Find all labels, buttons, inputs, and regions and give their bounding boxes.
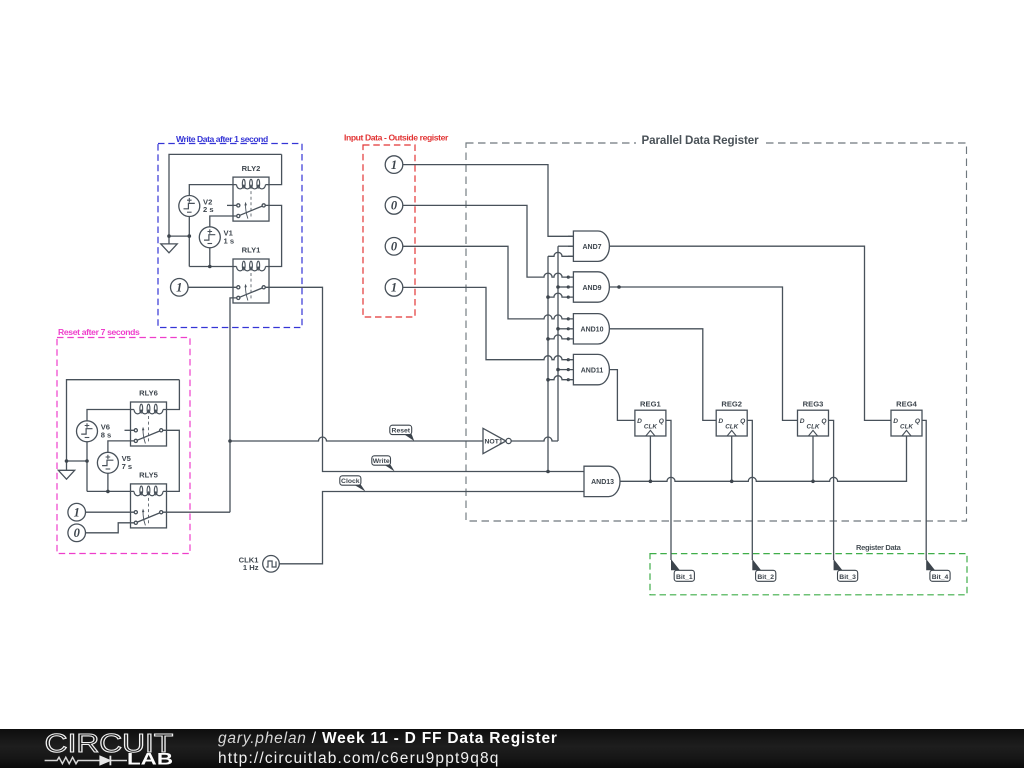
svg-text:AND7: AND7 <box>582 244 601 251</box>
D flip-flop REG3 <box>798 410 829 436</box>
wire data bit 2 to AND10 top input (hops over buses) <box>403 246 568 319</box>
svg-text:Q: Q <box>740 418 746 425</box>
wire V1 bottom <box>209 248 211 267</box>
wire RLY6 coil right to top rail <box>167 380 180 410</box>
digital source 1 (data bit 1) <box>385 279 403 297</box>
junction dots on buses <box>546 285 560 381</box>
svg-text:Q: Q <box>915 418 921 425</box>
wire RLY6 coil left to V6 top <box>87 410 131 421</box>
wire REG3 clock stub <box>812 436 814 481</box>
svg-text:REG3: REG3 <box>803 400 824 409</box>
wire RLY2 common stub (unconnected) <box>227 204 233 206</box>
wire RLY2 switch output down to RLY1 coil right <box>269 205 282 266</box>
svg-text:RLY6: RLY6 <box>139 389 158 398</box>
svg-text:D: D <box>800 418 805 425</box>
wire inverted-reset bus elbow into AND7 middle input <box>558 245 573 247</box>
svg-text:7 s: 7 s <box>122 462 133 471</box>
pin dots AND11 inputs <box>567 358 570 381</box>
wire V1 top to RLY2 lower switch pin <box>210 216 233 227</box>
wire NOT1 output to inverted-reset bus (hop over Write bus) <box>511 437 558 441</box>
svg-text:D: D <box>893 418 898 425</box>
input stubs AND10 <box>568 319 573 339</box>
footer site title <box>218 730 558 748</box>
svg-text:Bit_3: Bit_3 <box>839 574 856 581</box>
wire REG1 Q output down to Bit_1 <box>666 420 671 560</box>
svg-text:Write Data after 1 second: Write Data after 1 second <box>176 134 268 144</box>
flag label Bit_1 <box>671 559 694 581</box>
digital source 0 (data bit 3) <box>385 197 403 215</box>
wire REG3 Q output down to Bit_3 <box>829 420 834 560</box>
svg-text:D: D <box>637 418 642 425</box>
svg-text:1 Hz: 1 Hz <box>243 563 259 572</box>
label V1 1 s <box>224 229 235 246</box>
svg-text:Q: Q <box>659 418 665 425</box>
CircuitLab logo <box>40 729 180 768</box>
wire RLY5 coil left rail <box>87 490 131 492</box>
flag label Clock <box>340 476 366 492</box>
svg-text:0: 0 <box>74 526 81 540</box>
junction dot ground rail magenta <box>65 459 69 463</box>
and-gate AND7 <box>573 231 609 261</box>
junction dot REG3 clock <box>811 480 815 484</box>
wire AND10 bottom input tap (hop over x558) <box>548 335 568 339</box>
wire V6 bottom down to RLY5 coil rail <box>86 442 88 492</box>
flag label Bit_3 <box>834 559 858 581</box>
input stubs AND7 <box>568 236 573 256</box>
junction dot V5 bottom on coil rail <box>106 490 110 494</box>
wire AND9 bottom input tap (hop over x558) <box>548 293 568 297</box>
junction dot ground rail left <box>167 234 171 238</box>
wire Write bus elbow into AND7 bottom input (hop over x558) <box>548 252 573 256</box>
wire ground stub magenta <box>66 461 68 470</box>
and-gate AND13 (clock gating) <box>584 466 620 496</box>
svg-text:1: 1 <box>391 281 397 295</box>
svg-text:REG2: REG2 <box>721 400 742 409</box>
svg-text:Bit_4: Bit_4 <box>932 574 949 581</box>
label V5 7 s <box>122 454 133 471</box>
svg-text:Write: Write <box>373 458 390 465</box>
voltage source V1 <box>199 227 220 248</box>
relay RLY5 <box>131 484 167 528</box>
digital source 1 (write data input) <box>171 279 189 297</box>
wire V5 bottom <box>107 473 109 491</box>
flag label Write <box>372 456 395 472</box>
svg-text:Reset after 7 seconds: Reset after 7 seconds <box>58 327 140 337</box>
svg-text:Bit_2: Bit_2 <box>757 574 774 581</box>
label V2 2 s <box>203 197 214 214</box>
svg-text:AND13: AND13 <box>591 479 614 486</box>
svg-text:RLY5: RLY5 <box>139 471 158 480</box>
svg-text:CLK: CLK <box>644 424 657 431</box>
pin dots AND10 inputs <box>567 317 570 340</box>
svg-text:1 s: 1 s <box>224 237 235 246</box>
voltage source V2 <box>179 196 200 217</box>
wire REG1 clock stub <box>649 436 651 481</box>
wire AND10 output to REG2 D <box>609 329 716 421</box>
svg-text:REG1: REG1 <box>640 400 661 409</box>
wire AND7 output to REG4 D <box>609 246 891 420</box>
svg-text:CLK: CLK <box>900 424 913 431</box>
D flip-flop REG1 <box>635 410 666 436</box>
relay RLY6 <box>131 402 167 446</box>
wire source 1 to RLY1 common <box>188 286 233 288</box>
junction dot Reset tee <box>228 439 232 443</box>
wire Reset net: RLY1 lower pin down, RLY5 output, to NOT1 input (hop over Write vertical) <box>167 298 484 512</box>
svg-text:AND10: AND10 <box>581 327 604 334</box>
wire Clock net: CLK1 up and right to AND13 input B <box>279 492 584 564</box>
wire RLY6 common stub (unconnected) <box>125 429 131 431</box>
and-gate AND10 <box>573 314 609 344</box>
svg-text:Clock: Clock <box>341 478 360 485</box>
pin dots AND9 inputs <box>567 276 570 299</box>
wire source 0 to RLY5 lower switch pin <box>86 523 131 533</box>
digital source 1 (reset select input) <box>68 503 86 521</box>
svg-text:1: 1 <box>391 158 397 172</box>
junction dot REG1 clock <box>649 480 653 484</box>
wire AND10 middle input tap <box>558 328 568 330</box>
wire data bit 4 to AND7 top input <box>403 165 574 237</box>
wire bus: Write enable vertical (x548) <box>547 256 549 471</box>
wire ground rail to V6 bottom <box>67 460 88 462</box>
wire ground stub <box>168 236 170 244</box>
relay RLY2 <box>233 177 269 221</box>
digital source 0 (data bit 2) <box>385 238 403 256</box>
svg-text:Register Data: Register Data <box>856 543 902 552</box>
wire data bit 1 to AND11 top input (hops over buses) <box>403 287 568 359</box>
inverter NOT1 <box>483 428 511 453</box>
wire REG2 clock stub <box>731 436 733 481</box>
svg-text:D: D <box>718 418 723 425</box>
wire AND11 middle input tap <box>558 369 568 371</box>
svg-text:RLY1: RLY1 <box>242 246 261 255</box>
svg-text:REG4: REG4 <box>896 400 917 409</box>
svg-text:0: 0 <box>391 199 398 213</box>
and-gate AND11 <box>573 354 609 384</box>
wire V5 top to RLY6 lower switch pin <box>108 441 131 452</box>
svg-text:0: 0 <box>391 240 398 254</box>
svg-text:2 s: 2 s <box>203 205 214 214</box>
clock source CLK1 <box>263 556 280 573</box>
svg-text:LAB: LAB <box>127 751 173 768</box>
junction dot AND9 output <box>617 285 621 289</box>
junction dot V6 bottom <box>85 459 89 463</box>
footer url <box>218 750 500 768</box>
wire AND11 output to REG1 D <box>609 370 635 421</box>
annotation box: Reset after 7 seconds (magenta dashed) <box>57 327 190 554</box>
svg-text:Q: Q <box>821 418 827 425</box>
junction dot V1 bottom on coil rail <box>208 265 212 269</box>
label CLK1 1 Hz <box>239 555 260 572</box>
flag label Reset <box>390 425 414 441</box>
svg-text:AND9: AND9 <box>582 285 601 292</box>
annotation box: Write Data after 1 second (blue dashed) <box>158 134 302 328</box>
wire AND13 output: gated clock bus (hops over Q wires) <box>620 436 906 481</box>
voltage source V6 <box>77 421 98 442</box>
annotation box: Parallel Data Register (gray dashed) <box>466 133 967 521</box>
wire data bit 3 to AND9 top input (hops over buses) <box>403 205 568 277</box>
wire bus: inverted Reset vertical (x558) <box>557 246 559 441</box>
label V6 8 s <box>101 423 112 440</box>
junction dot V2 bottom <box>188 234 192 238</box>
wire top rail <box>169 154 282 236</box>
wire RLY6 switch output down to RLY5 coil right <box>167 430 180 491</box>
svg-text:1: 1 <box>176 281 182 295</box>
D flip-flop REG2 <box>716 410 747 436</box>
svg-text:Bit_1: Bit_1 <box>676 574 693 581</box>
input stubs AND11 <box>568 360 573 380</box>
digital source 0 (reset select input) <box>68 524 86 542</box>
voltage source V5 <box>97 452 118 473</box>
wire REG2 Q output down to Bit_2 <box>747 420 752 560</box>
svg-text:CLK: CLK <box>725 424 738 431</box>
and-gate AND9 <box>573 272 609 302</box>
wire V2 bottom down to RLY1 coil rail <box>188 217 190 267</box>
svg-text:AND11: AND11 <box>581 367 604 374</box>
svg-text:Reset: Reset <box>392 428 411 435</box>
flag label Bit_2 <box>752 559 776 581</box>
junction dot Write bus to Write line <box>546 470 550 474</box>
svg-text:CLK: CLK <box>807 424 820 431</box>
D flip-flop REG4 <box>891 410 922 436</box>
ground (magenta box) <box>58 470 74 479</box>
ground (blue box) <box>161 244 177 253</box>
junction dot REG2 clock <box>730 480 734 484</box>
input stubs AND9 <box>568 277 573 297</box>
wire AND9 middle input tap <box>558 286 568 288</box>
wire RLY2 coil left to V2 top <box>189 185 233 196</box>
wire top rail magenta <box>67 380 180 461</box>
wire AND9 output to REG3 D <box>609 287 797 420</box>
wire RLY1 coil left rail <box>189 266 233 268</box>
annotation box: Input Data - Outside register (red dashed) <box>344 133 449 318</box>
wire REG4 Q output down to Bit_4 <box>922 420 926 560</box>
svg-text:Input Data - Outside register: Input Data - Outside register <box>344 133 449 143</box>
digital source 1 (data bit 4) <box>385 156 403 174</box>
wire source 1 to RLY5 common <box>86 511 131 513</box>
wire RLY2 coil right to top rail <box>269 154 282 184</box>
flag label Bit_4 <box>926 559 950 581</box>
svg-text:RLY2: RLY2 <box>242 164 261 173</box>
svg-text:NOT1: NOT1 <box>485 438 503 445</box>
svg-text:Parallel Data Register: Parallel Data Register <box>641 134 759 147</box>
wire Write net: RLY1 output right, down (hop drawn on Reset), to AND13 input A <box>269 287 584 471</box>
wire AND11 bottom input tap (hop over x558) <box>548 376 568 380</box>
relay RLY1 <box>233 259 269 303</box>
annotation box: Register Data (green dashed) <box>650 543 967 595</box>
wire ground rail to V2 bottom <box>169 235 189 237</box>
svg-text:1: 1 <box>74 506 80 520</box>
svg-text:8 s: 8 s <box>101 431 112 440</box>
